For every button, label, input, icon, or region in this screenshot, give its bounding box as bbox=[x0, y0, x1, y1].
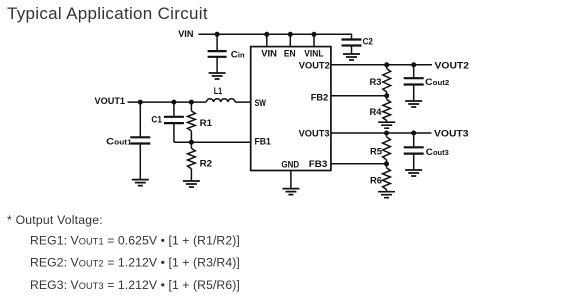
svg-text:C2: C2 bbox=[363, 36, 373, 47]
svg-text:EN: EN bbox=[284, 48, 296, 59]
svg-text:Cout1: Cout1 bbox=[106, 137, 132, 148]
svg-text:Typical Application Circuit: Typical Application Circuit bbox=[7, 4, 208, 23]
svg-text:* Output Voltage:: * Output Voltage: bbox=[7, 213, 103, 227]
svg-text:L1: L1 bbox=[214, 86, 223, 97]
svg-text:REG2: VOUT2 = 1.212V • [1 + (R: REG2: VOUT2 = 1.212V • [1 + (R3/R4)] bbox=[30, 256, 240, 270]
svg-text:R1: R1 bbox=[200, 118, 213, 129]
svg-text:R5: R5 bbox=[370, 146, 383, 157]
svg-text:VOUT1: VOUT1 bbox=[95, 96, 126, 107]
svg-text:C1: C1 bbox=[151, 115, 162, 126]
svg-text:VIN: VIN bbox=[261, 48, 277, 59]
svg-text:FB1: FB1 bbox=[255, 137, 272, 148]
svg-text:Cout3: Cout3 bbox=[426, 147, 449, 158]
svg-text:R6: R6 bbox=[370, 175, 382, 186]
svg-text:VOUT2: VOUT2 bbox=[299, 60, 330, 71]
svg-text:VOUT2: VOUT2 bbox=[435, 60, 470, 71]
svg-text:GND: GND bbox=[281, 159, 299, 170]
svg-text:R3: R3 bbox=[370, 77, 382, 88]
svg-text:REG3: VOUT3 = 1.212V • [1 + (R: REG3: VOUT3 = 1.212V • [1 + (R5/R6)] bbox=[30, 278, 240, 292]
svg-text:REG1: VOUT1 = 0.625V • [1 + (R: REG1: VOUT1 = 0.625V • [1 + (R1/R2)] bbox=[30, 233, 240, 247]
svg-text:R4: R4 bbox=[370, 107, 383, 118]
svg-text:VOUT3: VOUT3 bbox=[299, 128, 330, 139]
svg-text:VINL: VINL bbox=[304, 48, 323, 59]
svg-text:SW: SW bbox=[255, 98, 266, 109]
svg-text:Cin: Cin bbox=[231, 49, 245, 60]
svg-text:VOUT3: VOUT3 bbox=[434, 129, 469, 140]
svg-text:R2: R2 bbox=[200, 158, 213, 169]
svg-text:VIN: VIN bbox=[178, 29, 193, 40]
svg-text:FB2: FB2 bbox=[311, 92, 328, 103]
svg-text:Cout2: Cout2 bbox=[425, 77, 449, 88]
svg-text:FB3: FB3 bbox=[309, 159, 328, 170]
